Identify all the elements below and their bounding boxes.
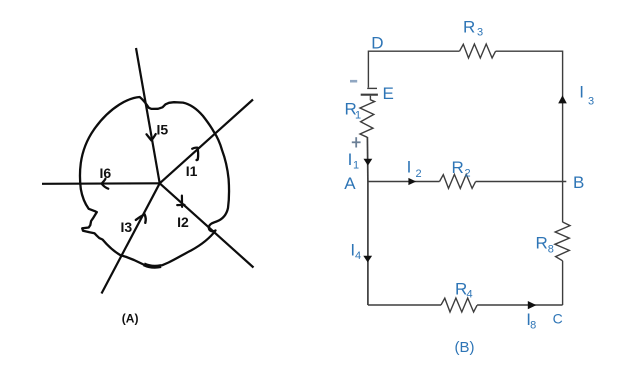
battery E plates bbox=[367, 87, 377, 89]
wire: conductor carrying I6 (left ray) bbox=[42, 182, 160, 185]
svg-text:I5: I5 bbox=[157, 122, 169, 138]
wire: D corner to R3 (top left segment) bbox=[368, 51, 459, 87]
svg-text:B: B bbox=[573, 173, 584, 192]
resistor R8 bbox=[555, 222, 570, 261]
svg-text:4: 4 bbox=[355, 250, 361, 262]
current arrow I6 (points left, out of node) bbox=[102, 179, 109, 189]
svg-text:2: 2 bbox=[416, 168, 422, 180]
svg-text:3: 3 bbox=[477, 27, 483, 39]
wire: R1 to node A bbox=[366, 137, 369, 182]
svg-text:A: A bbox=[344, 174, 356, 193]
svg-text:I2: I2 bbox=[177, 214, 189, 230]
svg-text:4: 4 bbox=[467, 288, 473, 300]
current arrow I2 bbox=[408, 178, 416, 185]
polarity minus of E bbox=[350, 80, 357, 83]
wire: conductor carrying I2 (lower-right ray) bbox=[160, 183, 254, 267]
current arrow I1 (points up-right, out of node) bbox=[192, 148, 198, 160]
svg-text:1: 1 bbox=[355, 109, 361, 121]
current arrow I3 (points up-right, into node) bbox=[136, 214, 146, 222]
wire: node A to R2 (middle left segment) bbox=[368, 181, 440, 183]
svg-text:3: 3 bbox=[588, 96, 594, 108]
wire: conductor carrying I5 (top ray) bbox=[136, 48, 160, 183]
closed surface: hand-drawn loop around the node bbox=[80, 97, 229, 267]
svg-text:8: 8 bbox=[530, 319, 536, 331]
wire: R2 to node B bbox=[476, 181, 567, 183]
resistor R2 bbox=[440, 174, 476, 188]
wire: R4 to node C bbox=[477, 304, 562, 306]
wire: conductor carrying I1 (upper-right ray) bbox=[160, 100, 253, 184]
svg-text:R: R bbox=[463, 18, 475, 37]
wire: conductor carrying I3 (lower-left ray) bbox=[102, 183, 160, 293]
current arrow I2 (points down, out of node) bbox=[177, 196, 184, 207]
svg-text:I: I bbox=[407, 158, 412, 177]
current arrow I3 bbox=[558, 95, 567, 103]
svg-text:D: D bbox=[371, 33, 383, 52]
svg-text:1: 1 bbox=[353, 159, 359, 171]
resistor R1 bbox=[360, 100, 375, 138]
svg-text:(A): (A) bbox=[122, 311, 139, 325]
svg-text:2: 2 bbox=[465, 168, 471, 180]
resistor R4 bbox=[441, 298, 477, 312]
resistor R3 bbox=[460, 44, 496, 58]
svg-text:R: R bbox=[455, 280, 467, 299]
svg-text:R: R bbox=[452, 158, 464, 177]
wire: R8 to node C bbox=[562, 261, 564, 305]
wire: node B to R8 bbox=[562, 182, 564, 223]
current arrow I8 bbox=[528, 301, 537, 309]
svg-text:C: C bbox=[553, 311, 563, 327]
wire: battery to R1 bbox=[369, 96, 371, 101]
svg-text:I: I bbox=[348, 150, 353, 169]
wire: R3 to top-right corner bbox=[496, 51, 563, 181]
current arrow I1 bbox=[364, 159, 373, 166]
wire: node A down (I4 branch) bbox=[367, 182, 369, 306]
svg-text:I1: I1 bbox=[186, 163, 198, 179]
svg-text:(B): (B) bbox=[455, 339, 475, 356]
svg-text:R: R bbox=[536, 233, 548, 252]
svg-text:I6: I6 bbox=[100, 165, 112, 181]
svg-text:8: 8 bbox=[548, 243, 554, 255]
wire: bottom-left corner to R4 bbox=[368, 304, 441, 306]
polarity plus of E bbox=[352, 141, 361, 143]
svg-text:E: E bbox=[383, 84, 394, 103]
current arrow I4 bbox=[363, 256, 372, 263]
svg-text:I: I bbox=[579, 83, 584, 102]
svg-text:I3: I3 bbox=[121, 219, 133, 235]
current arrow I5 (points down, into node) bbox=[147, 134, 156, 140]
